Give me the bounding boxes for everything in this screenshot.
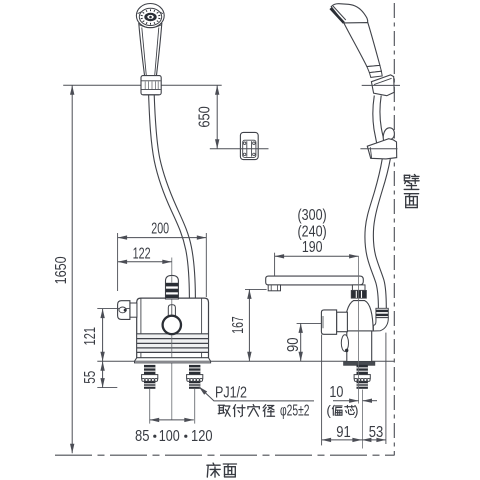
wire y85 side segment xyxy=(362,84,400,86)
temperature dial circle xyxy=(163,316,181,334)
handle lever oval xyxy=(119,307,126,313)
wire y148.8 side segment xyxy=(360,148,397,150)
shower head (front view) handle xyxy=(139,24,162,77)
dimension 167 xyxy=(245,288,267,290)
body stripes xyxy=(137,333,208,353)
svg-text:190: 190 xyxy=(302,239,323,256)
dimension 90 xyxy=(297,322,322,324)
svg-text:85: 85 xyxy=(135,428,150,445)
shower head (side view) xyxy=(331,4,368,28)
body axis extension line xyxy=(358,256,360,403)
svg-text:53: 53 xyxy=(369,424,384,441)
svg-text:91: 91 xyxy=(336,424,351,441)
label 取付穴径 φ25±2 xyxy=(218,404,224,406)
body cylinder (side view) xyxy=(347,331,372,362)
hose elbow bend xyxy=(373,318,388,331)
svg-text:): ) xyxy=(354,403,359,418)
leader PJ1/2 xyxy=(199,387,314,401)
dimension 55 xyxy=(102,361,104,387)
hose upper (side view) xyxy=(373,96,379,153)
svg-text:167: 167 xyxy=(230,316,247,334)
svg-text:200: 200 xyxy=(151,221,169,238)
dimension 91 / 53 xyxy=(321,335,323,446)
wire 650 lower reference line xyxy=(210,148,269,150)
hose hook (side view) xyxy=(383,128,394,141)
spout arm (side view) xyxy=(266,276,364,285)
wire top reference line y85 xyxy=(63,84,222,86)
base flange (side view) xyxy=(344,362,375,366)
dimension 650 xyxy=(216,85,218,149)
121 extension line at handle centre xyxy=(97,308,130,310)
hose connector turret on body top xyxy=(166,275,179,299)
dimension 190 xyxy=(274,253,276,276)
head face (dark edge) xyxy=(330,8,344,23)
faucet body (front view) xyxy=(137,298,209,358)
right supply leg (front view) xyxy=(189,365,200,375)
shower holder bracket (front view) xyxy=(141,76,161,95)
shower holder (side view) xyxy=(371,75,394,96)
dimension 200 xyxy=(117,233,119,291)
centre extension line through body xyxy=(171,258,173,421)
svg-text:PJ1/2: PJ1/2 xyxy=(215,384,247,401)
svg-text:90: 90 xyxy=(285,337,302,352)
hose elbow nut xyxy=(376,308,388,317)
shank axis extension line xyxy=(362,390,364,449)
svg-text:10: 10 xyxy=(329,384,343,401)
spout nut xyxy=(351,290,366,298)
svg-text:120: 120 xyxy=(191,428,213,445)
svg-text:122: 122 xyxy=(133,246,151,263)
shower hose (front view, left line) xyxy=(149,95,190,298)
dimension 85 100 120 xyxy=(150,419,194,421)
shower hose (front view, right line) xyxy=(154,95,195,298)
riser under spout xyxy=(352,285,365,291)
body dome (side view) xyxy=(344,301,373,331)
side oval detail xyxy=(341,335,348,352)
safety button stub xyxy=(168,305,175,316)
dimension 121 xyxy=(102,309,104,362)
wire deck mounting surface line xyxy=(97,360,394,362)
svg-text:(240): (240) xyxy=(298,223,327,240)
svg-text:650: 650 xyxy=(197,106,214,128)
label 壁面 (wall) xyxy=(404,174,410,176)
svg-text:121: 121 xyxy=(82,327,99,346)
wall line (dash-dot) xyxy=(393,3,395,455)
dimension 122 xyxy=(118,261,172,263)
spout nozzle xyxy=(268,285,280,291)
svg-text:1650: 1650 xyxy=(53,256,70,284)
base skirt xyxy=(135,358,211,363)
grip rings xyxy=(367,65,382,72)
left control handle (front view) xyxy=(130,303,137,317)
dimension 10 (offset) xyxy=(333,400,359,402)
knob (side view) xyxy=(337,312,348,332)
dimension 1650 xyxy=(71,85,73,453)
shank (side view) xyxy=(357,365,368,375)
svg-text:φ25±2: φ25±2 xyxy=(280,403,310,420)
floor line (dash-dot) 床面 xyxy=(55,454,395,456)
left supply leg (front view) xyxy=(144,365,155,375)
label 床面 (floor) xyxy=(212,463,215,465)
wall hook detail (front view) xyxy=(240,132,258,159)
svg-text:100: 100 xyxy=(159,428,180,445)
svg-text:55: 55 xyxy=(82,371,99,384)
shower head (front view) head xyxy=(136,4,164,28)
hose lower (side view) xyxy=(365,159,382,309)
handle (side view) xyxy=(344,23,380,67)
svg-text:(300): (300) xyxy=(298,207,327,224)
svg-text:(: ( xyxy=(326,403,331,418)
